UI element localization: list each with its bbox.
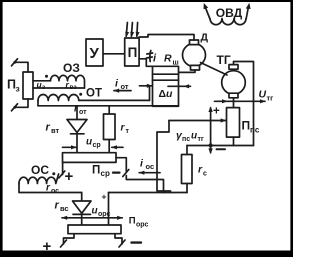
winding OS coil xyxy=(19,174,59,184)
winding OZ coil xyxy=(51,75,85,88)
amplifier U box xyxy=(86,39,103,66)
wire Pps bottom to minus rail xyxy=(233,137,235,145)
tachogenerator label TG xyxy=(217,53,231,67)
label i-ot xyxy=(115,78,129,92)
svg-text:u: u xyxy=(191,131,197,142)
svg-text:+: + xyxy=(102,192,107,202)
svg-text:з: з xyxy=(16,84,20,94)
arrow Utg xyxy=(215,99,266,103)
svg-text:u: u xyxy=(86,137,92,148)
label u-z xyxy=(37,80,47,92)
svg-text:П: П xyxy=(92,165,100,177)
svg-text:П: П xyxy=(128,45,138,60)
potentiometer Psr xyxy=(63,153,117,163)
svg-text:вз: вз xyxy=(70,84,78,91)
label Pz xyxy=(7,78,20,94)
motor D xyxy=(183,40,206,70)
potentiometer Pps xyxy=(227,108,240,138)
polarity dot OT xyxy=(79,93,82,96)
svg-text:пс: пс xyxy=(250,126,260,135)
svg-text:U: U xyxy=(259,89,267,101)
label u-sr xyxy=(86,137,101,150)
wire motor top to converter P xyxy=(139,35,194,41)
delta-u left tap arrow xyxy=(140,84,153,88)
label Pors xyxy=(129,216,149,229)
potentiometer Pors xyxy=(68,225,121,234)
current symbol i xyxy=(146,51,157,65)
svg-text:ш: ш xyxy=(173,58,179,67)
svg-text:П: П xyxy=(242,119,251,133)
svg-text:пс: пс xyxy=(182,136,190,143)
svg-text:ОВД: ОВД xyxy=(216,6,243,20)
plus sign Pors xyxy=(43,238,52,255)
Pors left terminal xyxy=(61,240,67,247)
OS left end down and to diode R-vs xyxy=(19,184,82,193)
svg-text:ОТ: ОТ xyxy=(86,88,102,100)
svg-text:ОС: ОС xyxy=(31,163,49,177)
Pz top terminal wire xyxy=(16,62,29,72)
minus sign Psr right xyxy=(113,172,120,174)
svg-text:т: т xyxy=(126,128,130,135)
wire TG top to right bus xyxy=(234,62,254,146)
label i-os xyxy=(140,158,154,172)
bottom feedback rail xyxy=(109,192,188,194)
riser to Pors right side xyxy=(108,193,110,226)
Pors left output xyxy=(64,234,75,244)
plus sign at divider output xyxy=(213,106,220,118)
shunt box with taps xyxy=(153,66,179,106)
OT left end to lower rail xyxy=(37,101,39,106)
minus sign near dot xyxy=(217,148,226,150)
Pz lower tap wire xyxy=(33,87,85,89)
minus sign Pors xyxy=(132,241,142,243)
OVD left supply arrow xyxy=(204,3,210,19)
diode R-vt xyxy=(67,120,87,153)
svg-text:ср: ср xyxy=(93,142,101,149)
wire tap to OT coil xyxy=(149,86,151,100)
label r-ot xyxy=(74,104,87,117)
wiper arrow of Pps xyxy=(169,118,226,122)
shaft motor to tachogenerator xyxy=(201,63,228,76)
wire P bottom-right to shunt xyxy=(139,59,152,67)
label r-vt xyxy=(46,122,60,136)
label Psr xyxy=(92,165,110,179)
resistor R-t branch xyxy=(104,106,116,153)
svg-text:вт: вт xyxy=(51,126,60,135)
label Pps xyxy=(242,119,260,135)
svg-text:П: П xyxy=(129,216,136,227)
arrow i-os xyxy=(139,171,160,175)
svg-text:Д: Д xyxy=(201,32,209,44)
Pz bottom terminal xyxy=(12,104,18,111)
OVD right supply arrow xyxy=(246,3,251,19)
junction dot on minus rail xyxy=(209,143,213,147)
label Utg xyxy=(259,89,274,103)
label r-vz xyxy=(66,80,78,92)
u-ors arrows xyxy=(61,216,123,220)
wire U to P xyxy=(104,53,125,55)
wire Psr minus to feedback rail xyxy=(126,176,163,193)
Psr left output wire xyxy=(62,162,64,174)
plus sign at riser top xyxy=(102,192,107,202)
svg-text:r: r xyxy=(55,200,60,212)
svg-text:с: с xyxy=(203,171,207,178)
tachogenerator TG xyxy=(222,65,246,98)
label gamma-ps u-tg xyxy=(176,130,204,144)
svg-text:ОЗ: ОЗ xyxy=(63,61,80,75)
svg-text:R: R xyxy=(164,53,172,65)
label u-ors xyxy=(92,206,111,219)
voltage arrow gamma-ps Utg xyxy=(208,106,212,154)
potentiometer Pz xyxy=(23,72,33,99)
wire wiper to lower rail xyxy=(157,121,171,193)
svg-text:ос: ос xyxy=(146,162,155,171)
Pz bottom terminal wire xyxy=(16,99,29,107)
diode R-vt branch wire xyxy=(76,106,78,120)
Pz upper tap wire xyxy=(33,80,51,82)
winding OT coil xyxy=(38,95,150,101)
field winding OVD label xyxy=(216,6,243,20)
arrow i-ot xyxy=(113,89,131,93)
svg-text:+: + xyxy=(65,168,74,185)
svg-text:r: r xyxy=(46,122,51,134)
wire TG bottom to potentiometer Pps xyxy=(233,98,235,108)
label R-sh xyxy=(164,53,179,67)
polarity dot OS xyxy=(52,172,55,175)
motor label D xyxy=(201,32,209,44)
u-sr arrows xyxy=(63,145,124,149)
label r-t xyxy=(121,123,130,136)
svg-text:вс: вс xyxy=(60,204,69,213)
Pors right output xyxy=(115,234,122,244)
plus sign Psr left xyxy=(65,168,74,185)
diode R-vs branch xyxy=(73,193,92,226)
svg-text:орс: орс xyxy=(136,222,149,229)
svg-text:ос: ос xyxy=(51,188,59,195)
svg-text:+: + xyxy=(213,106,220,118)
svg-text:ср: ср xyxy=(101,169,110,178)
converter P box xyxy=(125,38,139,66)
label r-vs xyxy=(55,200,69,214)
delta-u right tap arrow xyxy=(168,84,191,88)
svg-text:u: u xyxy=(166,88,173,100)
Psr left terminal xyxy=(59,171,65,178)
svg-text:от: от xyxy=(121,82,129,91)
supply arrows into P xyxy=(125,23,139,38)
Psr right output wire xyxy=(116,158,126,172)
svg-text:тг: тг xyxy=(198,136,204,143)
resistor Rc xyxy=(182,146,193,193)
svg-text:У: У xyxy=(90,45,100,62)
Pors right terminal xyxy=(119,240,125,247)
field winding OVD coil xyxy=(210,19,246,25)
label OS xyxy=(31,163,49,177)
label OZ xyxy=(63,61,80,75)
label OT xyxy=(86,88,102,100)
polarity dot OZ xyxy=(45,75,48,78)
label r-os xyxy=(46,183,59,196)
svg-text:тг: тг xyxy=(267,94,274,103)
svg-text:от: от xyxy=(79,109,87,116)
Pz top terminal xyxy=(12,59,18,66)
Psr right terminal xyxy=(123,170,129,177)
svg-text:u: u xyxy=(92,206,98,217)
label Rc xyxy=(198,164,207,178)
rail under OT xyxy=(38,105,179,107)
minus rail wire xyxy=(187,145,254,147)
label delta-u xyxy=(159,88,174,100)
wire motor bottom to shunt xyxy=(179,70,196,72)
